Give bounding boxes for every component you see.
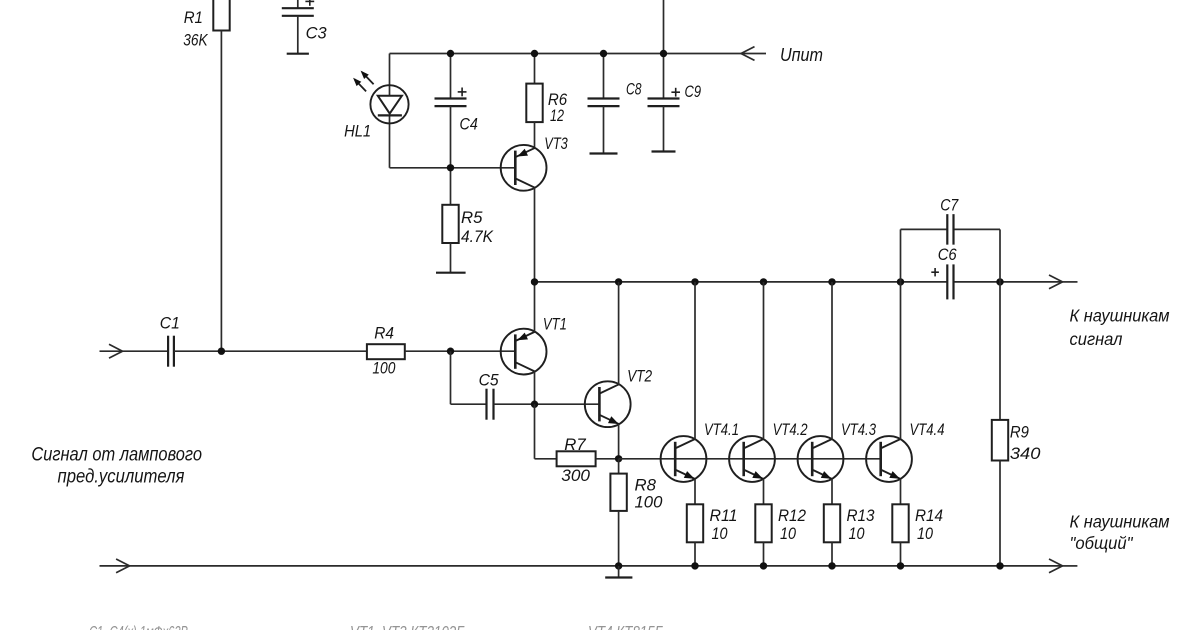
svg-text:10: 10 [712, 525, 729, 543]
svg-text:C3: C3 [306, 24, 328, 42]
svg-text:VT3: VT3 [544, 135, 568, 153]
svg-text:С1, С4(х) 1мФх63В: С1, С4(х) 1мФх63В [89, 624, 188, 630]
svg-text:VT4.1: VT4.1 [704, 421, 739, 439]
svg-text:R4: R4 [374, 324, 394, 342]
svg-text:Сигнал от лампового: Сигнал от лампового [31, 445, 202, 466]
svg-text:100: 100 [372, 360, 396, 378]
svg-text:К наушникам: К наушникам [1070, 512, 1170, 532]
svg-text:VT2: VT2 [627, 367, 652, 385]
svg-text:36K: 36K [183, 31, 208, 49]
svg-text:R9: R9 [1010, 424, 1029, 442]
svg-text:R5: R5 [461, 209, 483, 227]
svg-text:пред.усилителя: пред.усилителя [58, 467, 185, 488]
svg-text:C4: C4 [460, 115, 478, 133]
svg-text:HL1: HL1 [344, 123, 371, 141]
svg-text:R14: R14 [915, 507, 943, 525]
svg-text:100: 100 [635, 494, 664, 512]
svg-text:R8: R8 [635, 477, 657, 495]
svg-text:R13: R13 [847, 507, 876, 525]
svg-text:10: 10 [917, 525, 934, 543]
svg-text:R1: R1 [184, 9, 203, 27]
svg-text:Uпит: Uпит [780, 45, 823, 65]
svg-text:R7: R7 [564, 436, 586, 454]
svg-text:VT1, VT3 КТ3102Б: VT1, VT3 КТ3102Б [350, 624, 465, 630]
svg-text:300: 300 [561, 467, 591, 485]
svg-text:VT1: VT1 [543, 315, 567, 333]
svg-text:VT4.2: VT4.2 [773, 421, 808, 439]
svg-text:4.7K: 4.7K [461, 228, 494, 246]
svg-text:12: 12 [550, 107, 564, 125]
svg-text:340: 340 [1010, 445, 1041, 463]
svg-text:C5: C5 [479, 372, 500, 390]
svg-text:К наушникам: К наушникам [1070, 306, 1170, 326]
svg-text:C1: C1 [160, 315, 180, 333]
svg-text:R12: R12 [778, 507, 806, 525]
svg-text:"общий": "общий" [1070, 533, 1134, 553]
svg-text:VT4.3: VT4.3 [841, 421, 877, 439]
svg-text:C8: C8 [626, 80, 642, 98]
svg-text:сигнал: сигнал [1070, 329, 1123, 349]
svg-text:C9: C9 [685, 83, 702, 101]
svg-text:10: 10 [849, 525, 866, 543]
svg-text:C7: C7 [940, 197, 959, 215]
svg-text:10: 10 [780, 525, 797, 543]
svg-text:C6: C6 [938, 246, 958, 264]
svg-text:R11: R11 [710, 507, 738, 525]
svg-text:VT4 КТ815Г: VT4 КТ815Г [588, 624, 663, 630]
svg-text:VT4.4: VT4.4 [910, 421, 945, 439]
